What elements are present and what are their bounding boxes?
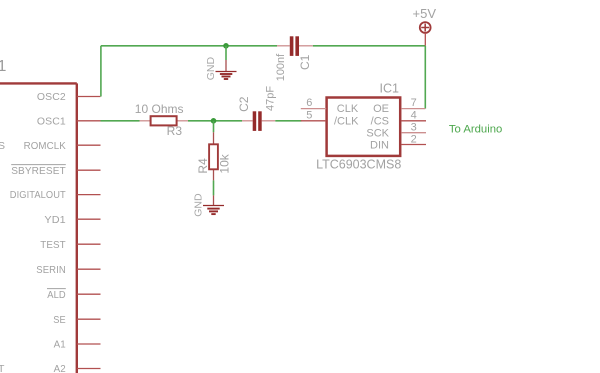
svg-text:S: S [0, 140, 5, 152]
pin SE [53, 314, 100, 326]
svg-text:2: 2 [411, 133, 417, 145]
svg-text:CLK: CLK [337, 103, 359, 115]
pin OSC2 [37, 91, 101, 103]
svg-text:SE: SE [53, 314, 66, 326]
svg-text:A1: A1 [54, 339, 66, 351]
wire R4 to GND [213, 180, 215, 195]
svg-text:6: 6 [306, 97, 312, 109]
svg-text:OSC1: OSC1 [37, 115, 66, 127]
pin DIGITALOUT [10, 189, 101, 201]
svg-text:4: 4 [411, 110, 417, 122]
svg-text:DIN: DIN [370, 139, 389, 151]
svg-text:10k: 10k [218, 153, 232, 173]
wire R3 to C2 [188, 120, 242, 122]
junction at GND drop [223, 43, 229, 49]
wire +5V to OE [424, 46, 426, 109]
pin YD1 [44, 214, 100, 226]
svg-text:R3: R3 [167, 124, 183, 138]
svg-text:IC1: IC1 [380, 82, 400, 96]
resistor R4 [196, 121, 232, 181]
svg-text:GND: GND [193, 193, 205, 217]
svg-text:TEST: TEST [40, 239, 66, 251]
svg-text:/CLK: /CLK [334, 116, 359, 128]
pin TEST [40, 239, 100, 251]
wire OSC2 vertical [100, 46, 102, 97]
IC IC1 (LTC6903) body [327, 98, 401, 156]
svg-text:SBYRESET: SBYRESET [11, 165, 66, 177]
svg-text:C1: C1 [298, 54, 312, 70]
wire VCC top horizontal [101, 45, 277, 47]
pin SERIN [36, 264, 100, 276]
svg-text:3: 3 [411, 121, 417, 133]
capacitor C1 [275, 36, 313, 81]
svg-text:SCK: SCK [366, 128, 389, 140]
svg-text:/CS: /CS [371, 116, 389, 128]
IC U1 (SP0256) body [0, 83, 77, 373]
svg-text:C2: C2 [237, 96, 251, 112]
svg-text:To Arduino: To Arduino [449, 124, 502, 136]
wire VCC top horizontal right of C1 [313, 45, 426, 47]
svg-text:OSC2: OSC2 [37, 91, 66, 103]
svg-text:GND: GND [205, 57, 217, 81]
wire C2 to /CLK [275, 120, 301, 122]
wire GND drop [225, 46, 227, 60]
svg-text:LTC6903CMS8: LTC6903CMS8 [316, 158, 401, 172]
svg-text:7: 7 [411, 97, 417, 109]
capacitor C2 [237, 86, 277, 131]
pin 2 DIN [370, 133, 426, 151]
junction at R4 [211, 118, 217, 124]
svg-text:ALD: ALD [47, 289, 66, 301]
svg-text:R4: R4 [196, 158, 210, 174]
power +5V [413, 6, 437, 46]
svg-text:OE: OE [373, 103, 389, 115]
svg-text:A2: A2 [54, 363, 66, 373]
svg-text:T: T [0, 363, 5, 373]
pin 4 /CS [371, 110, 426, 128]
pin 5 /CLK [301, 109, 359, 127]
wire OSC1 to R3 [101, 120, 140, 122]
pin 7 OE [373, 97, 425, 115]
svg-text:+5V: +5V [413, 6, 437, 21]
pin SBYRESET [11, 165, 100, 177]
resistor R3 [135, 102, 188, 138]
svg-text:47pF: 47pF [265, 86, 277, 111]
svg-text:YD1: YD1 [44, 214, 65, 226]
svg-text:100nf: 100nf [275, 53, 287, 81]
pin OSC1 [37, 115, 101, 127]
ground GND bottom [193, 193, 224, 217]
svg-text:10 Ohms: 10 Ohms [135, 102, 184, 116]
svg-text:ROMCLK: ROMCLK [24, 140, 66, 152]
svg-text:SERIN: SERIN [36, 264, 66, 276]
pin A2 [54, 363, 101, 373]
pin A1 [54, 339, 101, 351]
pin ALD [47, 289, 101, 301]
pin 6 CLK [301, 97, 359, 115]
svg-text:DIGITALOUT: DIGITALOUT [10, 189, 66, 201]
svg-text:5: 5 [306, 109, 312, 121]
ground GND top [205, 57, 237, 81]
pin ROMCLK [24, 140, 101, 152]
pin 3 SCK [366, 121, 426, 139]
svg-text:1: 1 [0, 58, 7, 75]
